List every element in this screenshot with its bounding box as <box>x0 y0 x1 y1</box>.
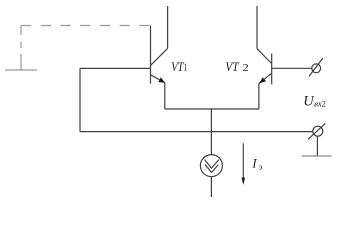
svg-text:1: 1 <box>184 62 188 74</box>
svg-text:VT: VT <box>225 60 239 74</box>
svg-text:2: 2 <box>322 99 326 109</box>
svg-text:VT: VT <box>171 60 184 74</box>
svg-text:2: 2 <box>242 62 248 74</box>
svg-text:э: э <box>259 162 263 172</box>
svg-text:I: I <box>251 157 257 171</box>
